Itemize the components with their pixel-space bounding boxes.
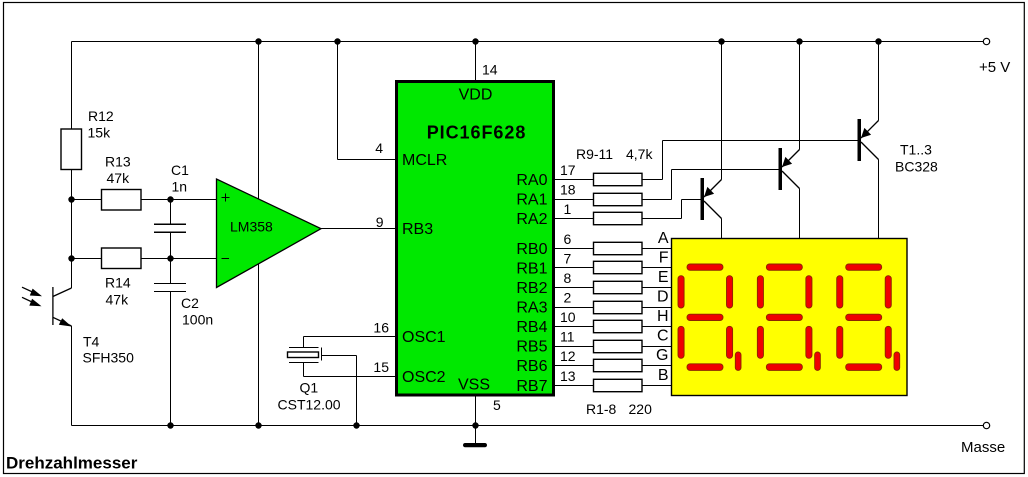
svg-text:VSS: VSS bbox=[458, 377, 490, 394]
svg-text:OSC2: OSC2 bbox=[402, 369, 446, 386]
svg-text:RA2: RA2 bbox=[516, 211, 547, 228]
svg-text:RB0: RB0 bbox=[516, 241, 547, 258]
svg-text:E: E bbox=[658, 269, 669, 286]
svg-text:H: H bbox=[657, 308, 669, 325]
svg-text:4,7k: 4,7k bbox=[626, 146, 653, 162]
svg-text:16: 16 bbox=[373, 320, 389, 336]
svg-text:+5 V: +5 V bbox=[979, 59, 1010, 76]
svg-text:220: 220 bbox=[629, 401, 653, 417]
svg-text:R14: R14 bbox=[105, 275, 131, 291]
svg-text:R1-8: R1-8 bbox=[586, 401, 617, 417]
svg-text:8: 8 bbox=[564, 270, 572, 286]
svg-text:1: 1 bbox=[564, 201, 572, 217]
svg-text:18: 18 bbox=[560, 182, 576, 198]
svg-text:R12: R12 bbox=[88, 108, 114, 124]
svg-text:RB2: RB2 bbox=[516, 280, 547, 297]
svg-text:T4: T4 bbox=[83, 334, 100, 350]
svg-text:2: 2 bbox=[564, 290, 572, 306]
svg-text:4: 4 bbox=[375, 140, 383, 156]
svg-text:F: F bbox=[659, 250, 669, 267]
svg-text:R9-11: R9-11 bbox=[576, 146, 613, 162]
svg-text:SFH350: SFH350 bbox=[83, 350, 135, 366]
svg-text:10: 10 bbox=[560, 309, 576, 325]
svg-text:12: 12 bbox=[560, 348, 576, 364]
svg-text:RB3: RB3 bbox=[402, 221, 433, 238]
svg-text:RB4: RB4 bbox=[516, 319, 547, 336]
svg-text:LM358: LM358 bbox=[230, 219, 273, 235]
svg-text:A: A bbox=[658, 230, 669, 247]
svg-text:9: 9 bbox=[376, 214, 384, 230]
svg-text:G: G bbox=[656, 347, 668, 364]
svg-text:D: D bbox=[657, 289, 669, 306]
svg-text:RB7: RB7 bbox=[516, 378, 547, 395]
svg-text:RB6: RB6 bbox=[516, 358, 547, 375]
svg-text:VDD: VDD bbox=[459, 87, 493, 104]
svg-text:OSC1: OSC1 bbox=[402, 329, 446, 346]
svg-text:47k: 47k bbox=[107, 170, 131, 186]
svg-text:C: C bbox=[657, 328, 669, 345]
svg-text:RA0: RA0 bbox=[516, 172, 547, 189]
svg-text:6: 6 bbox=[564, 231, 572, 247]
svg-text:R13: R13 bbox=[105, 154, 131, 170]
svg-text:15: 15 bbox=[373, 359, 389, 375]
svg-text:Masse: Masse bbox=[961, 439, 1005, 456]
svg-text:BC328: BC328 bbox=[895, 159, 938, 175]
svg-text:17: 17 bbox=[560, 162, 576, 178]
svg-text:15k: 15k bbox=[88, 125, 112, 141]
svg-text:RA3: RA3 bbox=[516, 300, 547, 317]
svg-text:14: 14 bbox=[482, 62, 498, 78]
svg-text:47k: 47k bbox=[106, 292, 130, 308]
svg-text:PIC16F628: PIC16F628 bbox=[427, 123, 527, 143]
svg-text:CST12.00: CST12.00 bbox=[278, 397, 341, 413]
svg-text:RB1: RB1 bbox=[516, 261, 547, 278]
svg-text:C1: C1 bbox=[171, 162, 189, 178]
svg-text:5: 5 bbox=[493, 397, 501, 413]
svg-text:11: 11 bbox=[560, 329, 575, 345]
svg-text:RB5: RB5 bbox=[516, 339, 547, 356]
svg-text:B: B bbox=[658, 367, 669, 384]
svg-text:Q1: Q1 bbox=[300, 380, 319, 396]
svg-text:100n: 100n bbox=[182, 312, 213, 328]
svg-text:T1..3: T1..3 bbox=[900, 142, 932, 158]
svg-text:7: 7 bbox=[564, 251, 572, 267]
svg-text:13: 13 bbox=[560, 368, 576, 384]
svg-text:MCLR: MCLR bbox=[402, 152, 447, 169]
svg-text:Drehzahlmesser: Drehzahlmesser bbox=[6, 454, 138, 473]
svg-text:RA1: RA1 bbox=[516, 192, 547, 209]
svg-text:1n: 1n bbox=[172, 179, 188, 195]
svg-text:C2: C2 bbox=[181, 295, 199, 311]
